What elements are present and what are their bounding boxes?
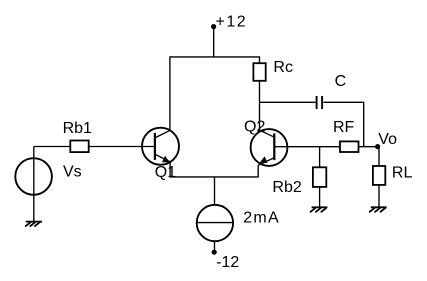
wire +12 supply stub — [213, 27, 215, 57]
svg-text:RF: RF — [333, 119, 355, 136]
resistor Rc — [253, 63, 265, 81]
svg-text:Rb1: Rb1 — [63, 120, 92, 137]
resistor Rb2 — [313, 167, 326, 187]
wire Rb2 top stub — [319, 147, 321, 168]
transistor Q2 — [251, 129, 288, 166]
wire RF right to Vo node — [359, 146, 380, 148]
svg-text:Rb2: Rb2 — [272, 179, 301, 196]
resistor Rb1 — [70, 141, 88, 153]
transistor Q1 — [142, 128, 179, 165]
wire Q1 emitter down to shared emitter rail — [170, 162, 258, 177]
node Vo junction dot — [375, 144, 380, 149]
svg-text:C: C — [335, 73, 347, 90]
wire emitter rail to current source — [214, 177, 216, 205]
svg-text:Rc: Rc — [273, 59, 293, 76]
node -12 junction dot — [212, 250, 217, 255]
wire Rb1 right to Q1 base — [89, 146, 155, 148]
resistor RL — [373, 166, 385, 185]
wire top rail with left drop to Q1 collector and right drop to Rc — [170, 57, 260, 130]
wire current source to -12 — [214, 241, 216, 250]
wire capacitor C right to output node — [323, 102, 363, 146]
svg-text:RL: RL — [392, 165, 413, 182]
resistor RF — [340, 141, 359, 152]
current source 2mA — [197, 205, 233, 241]
svg-text:2mA: 2mA — [243, 210, 280, 227]
svg-text:+12: +12 — [216, 14, 248, 31]
svg-text:Q1: Q1 — [155, 164, 176, 181]
wire Rb2 bottom to ground — [319, 187, 321, 207]
wire RL bottom to ground — [378, 185, 380, 207]
svg-text:Vs: Vs — [63, 164, 82, 181]
ground below RL — [370, 207, 387, 211]
wire Vs top to Rb1 left — [34, 146, 71, 148]
node +12 junction dot — [211, 24, 216, 29]
ground below Rb2 — [311, 207, 328, 211]
wire Q2 base to feedback node — [274, 146, 340, 148]
ground below Vs — [26, 222, 42, 226]
source Vs — [15, 158, 52, 195]
svg-text:-12: -12 — [216, 254, 239, 271]
svg-text:Vo: Vo — [378, 131, 397, 148]
svg-text:Q2: Q2 — [244, 119, 265, 136]
wire Vs through-line down to ground — [33, 147, 35, 222]
wire branch to capacitor C left — [260, 101, 316, 103]
wire Rc bottom to Q2 collector — [259, 81, 261, 130]
capacitor C — [317, 96, 323, 109]
wire Vo node down to RL — [378, 147, 380, 166]
